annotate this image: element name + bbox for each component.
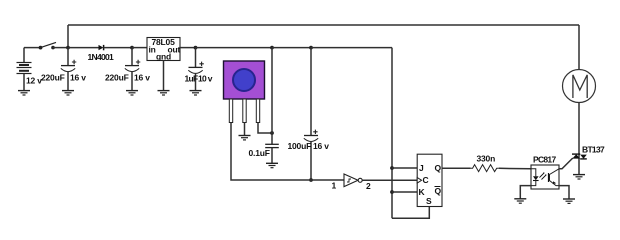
- optocoupler U5 PC817: [531, 154, 559, 189]
- capacitor C5 100uF 16v: [288, 130, 330, 180]
- node junction 100uF branch: [309, 46, 313, 50]
- node junction J: [390, 166, 394, 170]
- sensor module U2 (purple): [224, 61, 265, 123]
- ground C3: [190, 91, 202, 95]
- ground C1: [62, 91, 74, 95]
- svg-text:C: C: [423, 175, 429, 185]
- wire right vertical top rail to motor: [578, 25, 580, 70]
- node junction right leg: [270, 131, 274, 135]
- wire diode to node: [103, 47, 132, 49]
- resistor R1 330n: [471, 154, 499, 172]
- wire opto emitter to ground: [559, 186, 569, 199]
- wire switch to node: [53, 47, 68, 49]
- wire bottom to S pin: [392, 207, 429, 219]
- capacitor C4 0.1uF: [249, 144, 279, 163]
- wire sensor right leg to 0.1uF node: [258, 123, 272, 134]
- wire opto collector to triac gate: [559, 158, 573, 169]
- capacitor C2 220uF 16v: [105, 48, 150, 91]
- svg-text:S: S: [426, 196, 432, 206]
- svg-text:2: 2: [366, 181, 371, 191]
- svg-text:100uF: 100uF: [288, 141, 312, 151]
- wire regulator out to node: [180, 47, 196, 49]
- svg-text:gnd: gnd: [156, 52, 171, 62]
- svg-text:in: in: [149, 45, 156, 55]
- regulator U1 78L05: [147, 37, 180, 62]
- wire vcc drop to 0.1uF: [271, 48, 273, 144]
- wire inverter output to flipflop C: [362, 179, 417, 181]
- ground opto left: [514, 199, 526, 203]
- ground regulator: [158, 91, 170, 95]
- svg-text:12 v: 12 v: [26, 76, 42, 86]
- wire Q output to resistor: [442, 167, 471, 169]
- node junction C1: [66, 46, 70, 50]
- svg-text:16 v: 16 v: [134, 73, 150, 83]
- ground sensor: [239, 136, 251, 140]
- wire node to diode: [68, 47, 99, 49]
- wire K input: [392, 191, 417, 193]
- flip-flop U4 JK: [417, 154, 442, 206]
- node junction K: [390, 190, 394, 194]
- ground triac: [573, 175, 585, 179]
- battery B1 12v: [17, 48, 43, 91]
- svg-text:Q: Q: [435, 186, 442, 196]
- capacitor C3 1uF 10v: [185, 48, 213, 91]
- svg-text:Q: Q: [435, 163, 442, 173]
- wire resistor to optocoupler: [499, 167, 531, 170]
- wire motor to triac: [578, 103, 580, 175]
- svg-text:J: J: [419, 163, 424, 173]
- wire sensor middle leg to ground: [244, 123, 246, 136]
- ground C4: [266, 163, 278, 167]
- wire regulator gnd pin: [163, 61, 165, 91]
- motor M1: [563, 70, 596, 103]
- svg-text:10 v: 10 v: [198, 74, 213, 84]
- svg-text:16 v: 16 v: [313, 141, 329, 151]
- svg-text:1: 1: [332, 181, 337, 191]
- wire vcc drop x392: [391, 48, 393, 219]
- svg-text:16 v: 16 v: [70, 73, 86, 83]
- wire main rail to flipflop drop: [311, 47, 392, 49]
- wire node to node: [272, 47, 311, 49]
- wire node to node: [196, 47, 273, 49]
- diode D1 1N4001: [88, 45, 115, 62]
- svg-text:220uF: 220uF: [41, 73, 65, 83]
- ground battery: [18, 91, 30, 95]
- node junction C3: [194, 46, 198, 50]
- wire battery to switch: [24, 47, 40, 49]
- wire sensor left leg to inverter input: [231, 123, 344, 181]
- node junction 0.1uF branch: [270, 46, 274, 50]
- svg-text:1N4001: 1N4001: [88, 52, 115, 62]
- svg-text:1uF: 1uF: [185, 74, 199, 84]
- wire node to regulator: [132, 47, 147, 49]
- inverter U3 (schmitt): [332, 174, 372, 191]
- triac Q1 BT137: [572, 145, 605, 159]
- switch SW1: [39, 42, 56, 49]
- wire vcc drop to 100uF: [310, 48, 312, 136]
- capacitor C1 220uF 16v: [41, 48, 86, 91]
- wire top rail: [68, 24, 579, 26]
- svg-text:330n: 330n: [477, 154, 496, 164]
- ground C2: [126, 91, 138, 95]
- ground opto right: [563, 199, 575, 203]
- wire left vertical top rail to main rail: [67, 25, 69, 48]
- svg-text:PC817: PC817: [533, 154, 556, 164]
- node junction 100uF to signal: [309, 178, 313, 182]
- svg-text:BT137: BT137: [582, 145, 605, 155]
- svg-text:0.1uF: 0.1uF: [249, 148, 270, 158]
- svg-text:220uF: 220uF: [105, 73, 129, 83]
- svg-text:K: K: [419, 187, 426, 197]
- wire J input: [392, 167, 417, 169]
- node junction C2: [130, 46, 134, 50]
- wire opto led cathode to ground: [520, 186, 531, 199]
